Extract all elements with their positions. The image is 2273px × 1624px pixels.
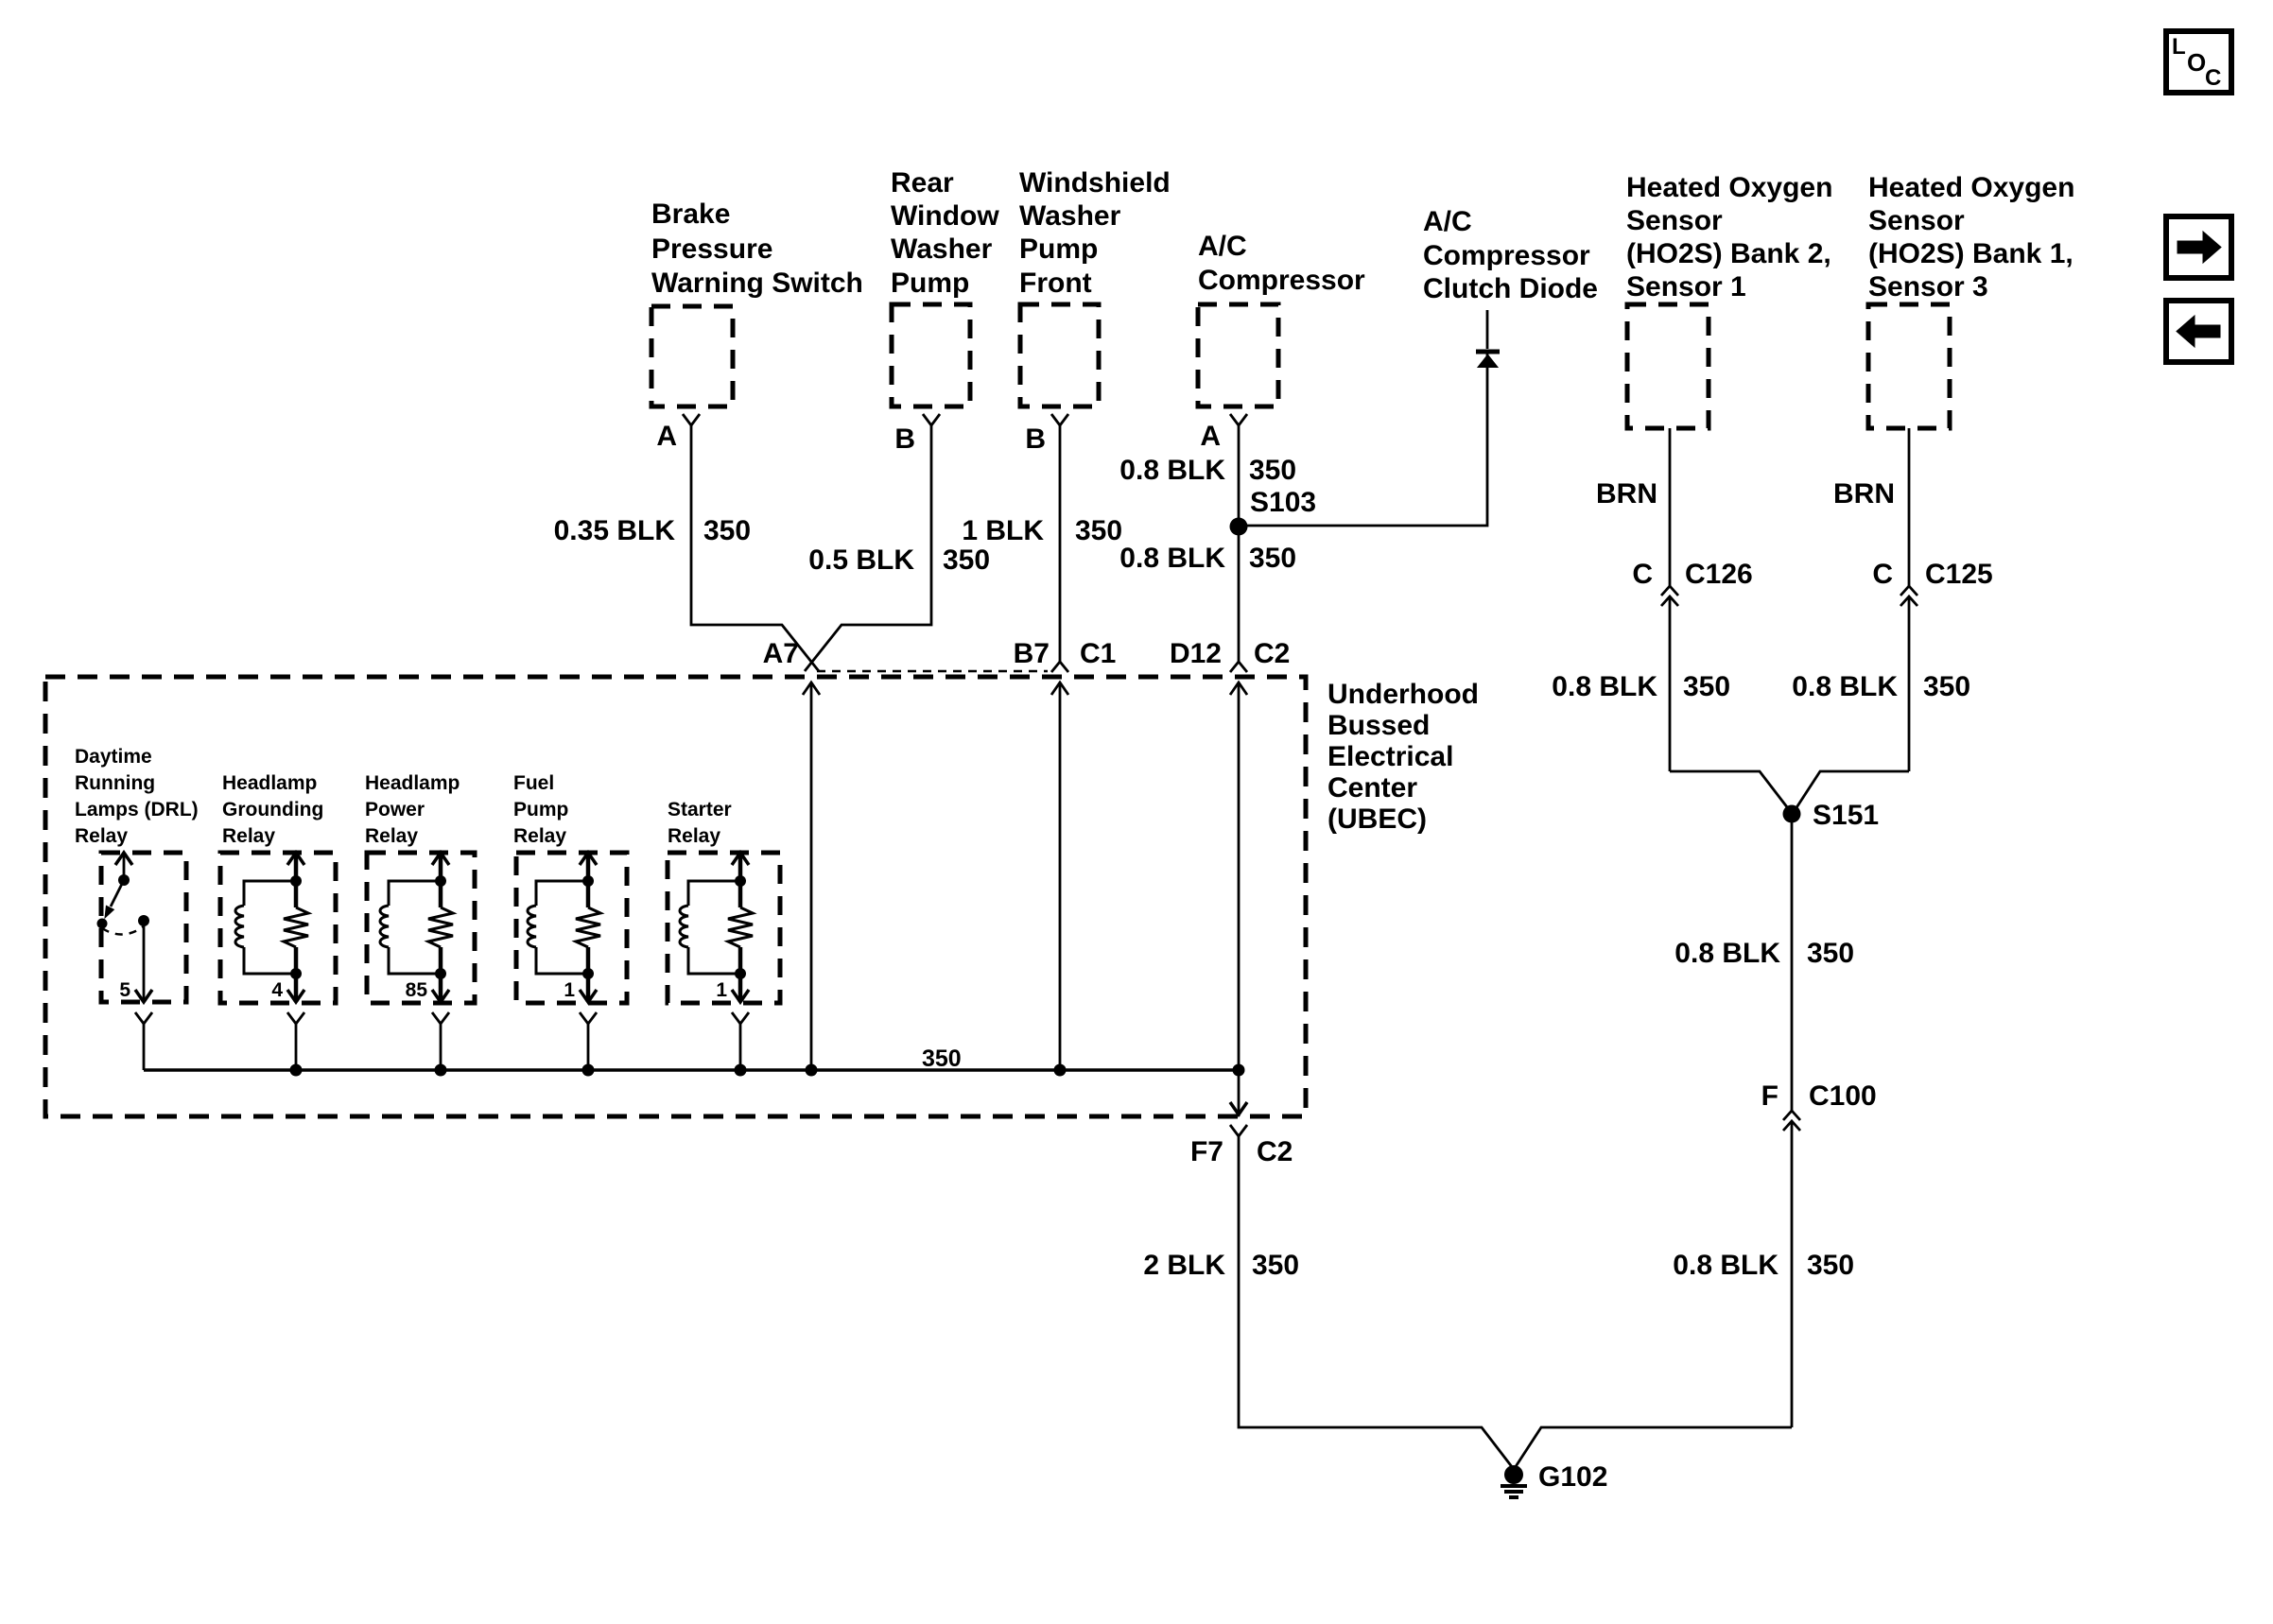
svg-text:0.8 BLK: 0.8 BLK: [1792, 671, 1898, 702]
svg-text:1 BLK: 1 BLK: [962, 515, 1044, 546]
wire A/C compressor to S103: [1238, 425, 1241, 526]
svg-text:Window: Window: [891, 200, 999, 232]
svg-text:Underhood: Underhood: [1327, 679, 1479, 710]
svg-text:Relay: Relay: [75, 825, 128, 847]
svg-text:350: 350: [703, 515, 751, 546]
svg-text:Pump: Pump: [513, 799, 568, 821]
fuel pump relay coil: [528, 881, 588, 974]
svg-text:L: L: [2172, 34, 2186, 60]
svg-text:350: 350: [943, 544, 990, 576]
svg-text:F7: F7: [1190, 1136, 1223, 1167]
headlamp power relay box: [367, 853, 475, 1003]
LOC legend box: [2166, 31, 2231, 93]
svg-text:C1: C1: [1080, 638, 1116, 669]
svg-text:1: 1: [564, 979, 575, 1001]
wire S103 to D12: [1238, 526, 1241, 662]
svg-text:(UBEC): (UBEC): [1327, 803, 1427, 835]
label 0.8 BLK 350 left branch: [1552, 671, 1730, 702]
svg-text:Warning Switch: Warning Switch: [651, 268, 863, 299]
wire brake switch to A7: [691, 425, 819, 671]
wire windshield washer pump to B7: [1059, 425, 1062, 662]
svg-text:Sensor 1: Sensor 1: [1626, 271, 1746, 302]
connector pin A of brake switch: [656, 414, 700, 452]
wire A7 entry to ground bus: [803, 682, 820, 1070]
DRL relay pin 5: [119, 921, 152, 1002]
label 0.35 BLK 350: [554, 515, 751, 546]
svg-text:Relay: Relay: [513, 825, 566, 847]
svg-text:Daytime: Daytime: [75, 746, 152, 768]
connector pin A of A/C compressor: [1200, 414, 1247, 452]
svg-text:(HO2S) Bank 2,: (HO2S) Bank 2,: [1626, 238, 1831, 269]
heated oxygen sensor bank 1 sensor 3 box: [1868, 304, 1950, 428]
svg-text:Sensor: Sensor: [1868, 205, 1965, 236]
svg-text:C100: C100: [1809, 1080, 1877, 1112]
svg-text:Electrical: Electrical: [1327, 741, 1453, 772]
headlamp grounding relay label: [222, 772, 323, 847]
svg-text:Running: Running: [75, 772, 155, 794]
headlamp power relay pin 85: [406, 947, 449, 1002]
junction of A7 wire on bus: [806, 1064, 818, 1077]
svg-text:0.8 BLK: 0.8 BLK: [1119, 455, 1225, 486]
wire C125 to S151: [1794, 596, 1909, 812]
wire S151 to C100: [1791, 814, 1794, 1111]
svg-text:350: 350: [1249, 455, 1296, 486]
svg-text:C126: C126: [1685, 559, 1753, 590]
svg-text:Headlamp: Headlamp: [222, 772, 317, 794]
wire rear washer pump to A7: [805, 425, 931, 671]
svg-text:D12: D12: [1170, 638, 1222, 669]
starter relay pin 1: [716, 947, 749, 1002]
svg-text:1: 1: [716, 979, 727, 1001]
left arrow legend box: [2166, 301, 2231, 362]
headlamp grounding relay box: [220, 853, 336, 1003]
svg-text:A/C: A/C: [1198, 231, 1247, 262]
wire C126 to S151: [1670, 596, 1791, 812]
headlamp grounding relay pin 4: [271, 947, 304, 1002]
svg-text:2 BLK: 2 BLK: [1143, 1250, 1225, 1281]
label 2 BLK 350: [1143, 1250, 1299, 1281]
headlamp power relay contact arm wire: [432, 853, 449, 907]
svg-text:Bussed: Bussed: [1327, 710, 1430, 741]
wire D12 entry to ground bus: [1230, 682, 1247, 1070]
svg-text:C125: C125: [1925, 559, 1993, 590]
wire C100 to G102: [1515, 1121, 1792, 1468]
svg-text:Power: Power: [365, 799, 425, 821]
starter relay box: [668, 853, 780, 1003]
svg-text:350: 350: [1683, 671, 1730, 702]
windshield washer pump front box: [1020, 304, 1099, 406]
wire B7 entry to ground bus: [1051, 682, 1068, 1070]
svg-text:C: C: [1872, 559, 1893, 590]
svg-text:B: B: [894, 423, 915, 455]
svg-text:B7: B7: [1014, 638, 1050, 669]
svg-text:S151: S151: [1813, 800, 1879, 831]
junction of D12 wire on bus: [1233, 1064, 1245, 1077]
svg-text:4: 4: [271, 979, 283, 1001]
connector D12/C2: [1170, 638, 1290, 672]
connector C/C126: [1632, 559, 1752, 606]
svg-text:Heated Oxygen: Heated Oxygen: [1626, 172, 1832, 203]
svg-text:C2: C2: [1254, 638, 1290, 669]
svg-text:0.5 BLK: 0.5 BLK: [808, 544, 914, 576]
fuel pump relay pin 1: [564, 947, 597, 1002]
UBEC dashed enclosure: [45, 677, 1306, 1116]
svg-text:O: O: [2187, 48, 2206, 77]
svg-text:A: A: [1200, 421, 1221, 452]
heated oxygen sensor bank 2 sensor 1 box: [1627, 304, 1709, 428]
starter relay resistor: [728, 907, 753, 947]
dashed link A7 to B7: [817, 670, 1048, 673]
svg-text:Clutch Diode: Clutch Diode: [1423, 273, 1598, 304]
brake pressure warning switch label: [651, 199, 863, 299]
label 0.8 BLK 350 upper: [1119, 455, 1296, 486]
A/C compressor label: [1198, 231, 1365, 296]
fuel pump relay box: [516, 853, 627, 1003]
junction of headlamp grounding relay on ground bus: [290, 1064, 303, 1077]
svg-text:Center: Center: [1327, 772, 1417, 803]
svg-text:Heated Oxygen: Heated Oxygen: [1868, 172, 2074, 203]
svg-text:85: 85: [406, 979, 428, 1001]
svg-text:A/C: A/C: [1423, 206, 1472, 237]
svg-text:0.8 BLK: 0.8 BLK: [1552, 671, 1657, 702]
junction of starter relay on ground bus: [735, 1064, 747, 1077]
svg-text:C: C: [2205, 65, 2221, 91]
svg-text:Washer: Washer: [1019, 200, 1121, 232]
headlamp grounding relay coil: [235, 881, 296, 974]
svg-text:0.8 BLK: 0.8 BLK: [1673, 1250, 1778, 1281]
svg-text:F: F: [1761, 1080, 1778, 1112]
svg-text:Lamps (DRL): Lamps (DRL): [75, 799, 199, 821]
svg-text:Rear: Rear: [891, 167, 954, 199]
svg-text:C2: C2: [1257, 1136, 1293, 1167]
headlamp grounding relay contact arm wire: [287, 853, 304, 907]
wire bus to F7 exit: [1230, 1070, 1247, 1116]
svg-text:350: 350: [1807, 1250, 1854, 1281]
svg-text:Relay: Relay: [365, 825, 418, 847]
headlamp power relay output connector: [432, 1012, 449, 1070]
rear window washer pump box: [892, 304, 970, 406]
wire HO2S bank1 to C125: [1908, 428, 1911, 586]
svg-text:Pump: Pump: [891, 268, 969, 299]
svg-text:0.8 BLK: 0.8 BLK: [1119, 543, 1225, 574]
starter relay output connector: [732, 1012, 749, 1070]
connector F/C100: [1761, 1080, 1877, 1131]
node A7: [763, 638, 799, 669]
fuel pump relay resistor: [576, 907, 600, 947]
junction of fuel pump relay on ground bus: [582, 1064, 595, 1077]
svg-text:B: B: [1025, 423, 1046, 455]
svg-text:G102: G102: [1538, 1461, 1607, 1493]
windshield washer pump front label: [1019, 167, 1171, 299]
svg-text:Relay: Relay: [668, 825, 720, 847]
svg-text:Starter: Starter: [668, 799, 732, 821]
svg-text:Fuel: Fuel: [513, 772, 554, 794]
svg-text:Compressor: Compressor: [1423, 240, 1590, 271]
label 1 BLK 350: [962, 515, 1122, 546]
svg-text:5: 5: [119, 979, 130, 1001]
brake pressure warning switch box: [651, 306, 733, 406]
svg-text:0.8 BLK: 0.8 BLK: [1674, 938, 1780, 969]
svg-text:Washer: Washer: [891, 233, 993, 265]
DRL output connector: [135, 1012, 152, 1070]
svg-text:C: C: [1632, 559, 1653, 590]
svg-text:350: 350: [922, 1045, 962, 1072]
wire HO2S bank2 to C126: [1669, 428, 1672, 586]
headlamp grounding relay output connector: [287, 1012, 304, 1070]
DRL relay switch: [97, 853, 150, 935]
right arrow legend box: [2166, 216, 2231, 278]
fuel pump relay label: [513, 772, 568, 847]
wire F7 to G102: [1239, 1136, 1513, 1468]
svg-text:350: 350: [1807, 938, 1854, 969]
connector C/C125: [1872, 559, 1992, 606]
headlamp power relay coil: [380, 881, 441, 974]
headlamp power relay resistor: [428, 907, 453, 947]
svg-text:Headlamp: Headlamp: [365, 772, 460, 794]
headlamp grounding relay resistor: [284, 907, 308, 947]
svg-text:Relay: Relay: [222, 825, 275, 847]
heated oxygen sensor bank 1 sensor 3 label: [1868, 172, 2074, 302]
svg-text:Pressure: Pressure: [651, 233, 772, 265]
svg-text:350: 350: [1249, 543, 1296, 574]
rear window washer pump label: [891, 167, 999, 299]
label 0.5 BLK 350: [808, 544, 990, 576]
svg-text:BRN: BRN: [1596, 478, 1657, 510]
daytime running lamps relay box: [101, 853, 186, 1002]
connector pin B of windshield washer pump: [1025, 414, 1068, 455]
UBEC label: [1327, 679, 1479, 835]
A/C compressor box: [1198, 304, 1278, 406]
label 0.8 BLK 350 lower: [1119, 543, 1296, 574]
svg-text:BRN: BRN: [1833, 478, 1895, 510]
svg-text:Sensor: Sensor: [1626, 205, 1723, 236]
junction of headlamp power relay on ground bus: [435, 1064, 447, 1077]
svg-text:Front: Front: [1019, 268, 1092, 299]
svg-text:0.35 BLK: 0.35 BLK: [554, 515, 676, 546]
connector pin B of rear window washer pump: [894, 414, 940, 455]
svg-text:Windshield: Windshield: [1019, 167, 1171, 199]
ground G102: [1501, 1461, 1607, 1497]
label 0.8 BLK 350 bottom right: [1673, 1250, 1854, 1281]
headlamp power relay label: [365, 772, 460, 847]
label 0.8 BLK 350 below S151: [1674, 938, 1854, 969]
svg-text:Brake: Brake: [651, 199, 730, 230]
connector B7/C1: [1014, 638, 1117, 672]
heated oxygen sensor bank 2 sensor 1 label: [1626, 172, 1832, 302]
daytime running lamps relay label: [75, 746, 199, 847]
ground bus wire 350: [144, 1045, 1239, 1072]
starter relay label: [668, 799, 732, 847]
svg-text:Pump: Pump: [1019, 233, 1098, 265]
A/C compressor clutch diode: [1476, 310, 1500, 367]
svg-text:Compressor: Compressor: [1198, 265, 1365, 296]
svg-text:A7: A7: [763, 638, 799, 669]
splice S103: [1230, 487, 1317, 536]
svg-text:350: 350: [1075, 515, 1122, 546]
svg-text:A: A: [656, 421, 677, 452]
svg-text:Grounding: Grounding: [222, 799, 323, 821]
splice S151: [1783, 800, 1880, 831]
fuel pump relay contact arm wire: [580, 853, 597, 907]
svg-text:S103: S103: [1250, 487, 1316, 518]
svg-text:350: 350: [1252, 1250, 1299, 1281]
starter relay coil: [680, 881, 740, 974]
fuel pump relay output connector: [580, 1012, 597, 1070]
junction of B7 wire on bus: [1054, 1064, 1067, 1077]
starter relay contact arm wire: [732, 853, 749, 907]
connector F7/C2: [1190, 1125, 1293, 1167]
svg-text:(HO2S) Bank 1,: (HO2S) Bank 1,: [1868, 238, 2073, 269]
wire S103 to clutch diode: [1239, 351, 1487, 526]
svg-text:350: 350: [1923, 671, 1970, 702]
label 0.8 BLK 350 right branch: [1792, 671, 1970, 702]
svg-text:Sensor 3: Sensor 3: [1868, 271, 1988, 302]
A/C compressor clutch diode label: [1423, 206, 1598, 304]
